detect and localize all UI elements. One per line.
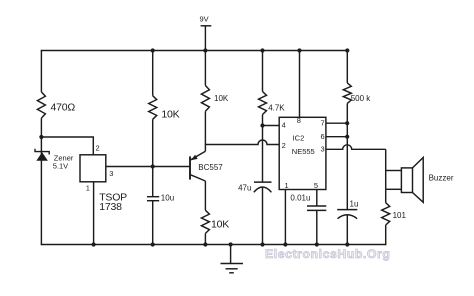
svg-text:IC2: IC2 [293, 133, 305, 142]
svg-text:1u: 1u [350, 200, 359, 209]
svg-text:1: 1 [86, 184, 90, 193]
svg-text:5: 5 [314, 181, 318, 190]
svg-text:5.1V: 5.1V [53, 161, 68, 170]
svg-text:1: 1 [285, 181, 289, 190]
svg-text:8: 8 [297, 116, 301, 125]
svg-text:10u: 10u [161, 194, 174, 203]
svg-text:500 k: 500 k [351, 94, 372, 103]
svg-text:NE555: NE555 [292, 147, 315, 156]
svg-text:BC557: BC557 [198, 163, 223, 172]
svg-text:ElectronicsHub.Org: ElectronicsHub.Org [265, 247, 390, 261]
svg-text:Buzzer: Buzzer [429, 174, 454, 183]
svg-text:10K: 10K [214, 94, 229, 103]
svg-text:6: 6 [321, 132, 325, 141]
svg-text:9V: 9V [200, 14, 209, 23]
svg-text:4: 4 [282, 121, 286, 130]
svg-text:7: 7 [321, 119, 325, 128]
svg-text:47u: 47u [238, 184, 251, 193]
svg-text:10K: 10K [211, 219, 229, 231]
svg-text:0.01u: 0.01u [290, 194, 310, 203]
svg-text:2: 2 [96, 143, 100, 152]
svg-text:3: 3 [109, 169, 113, 178]
svg-text:10K: 10K [161, 109, 179, 121]
svg-text:470Ω: 470Ω [51, 102, 76, 114]
svg-text:101: 101 [393, 211, 407, 220]
svg-text:3: 3 [321, 145, 325, 154]
svg-text:2: 2 [282, 141, 286, 150]
svg-text:4.7K: 4.7K [268, 103, 285, 112]
svg-text:1738: 1738 [99, 201, 122, 213]
